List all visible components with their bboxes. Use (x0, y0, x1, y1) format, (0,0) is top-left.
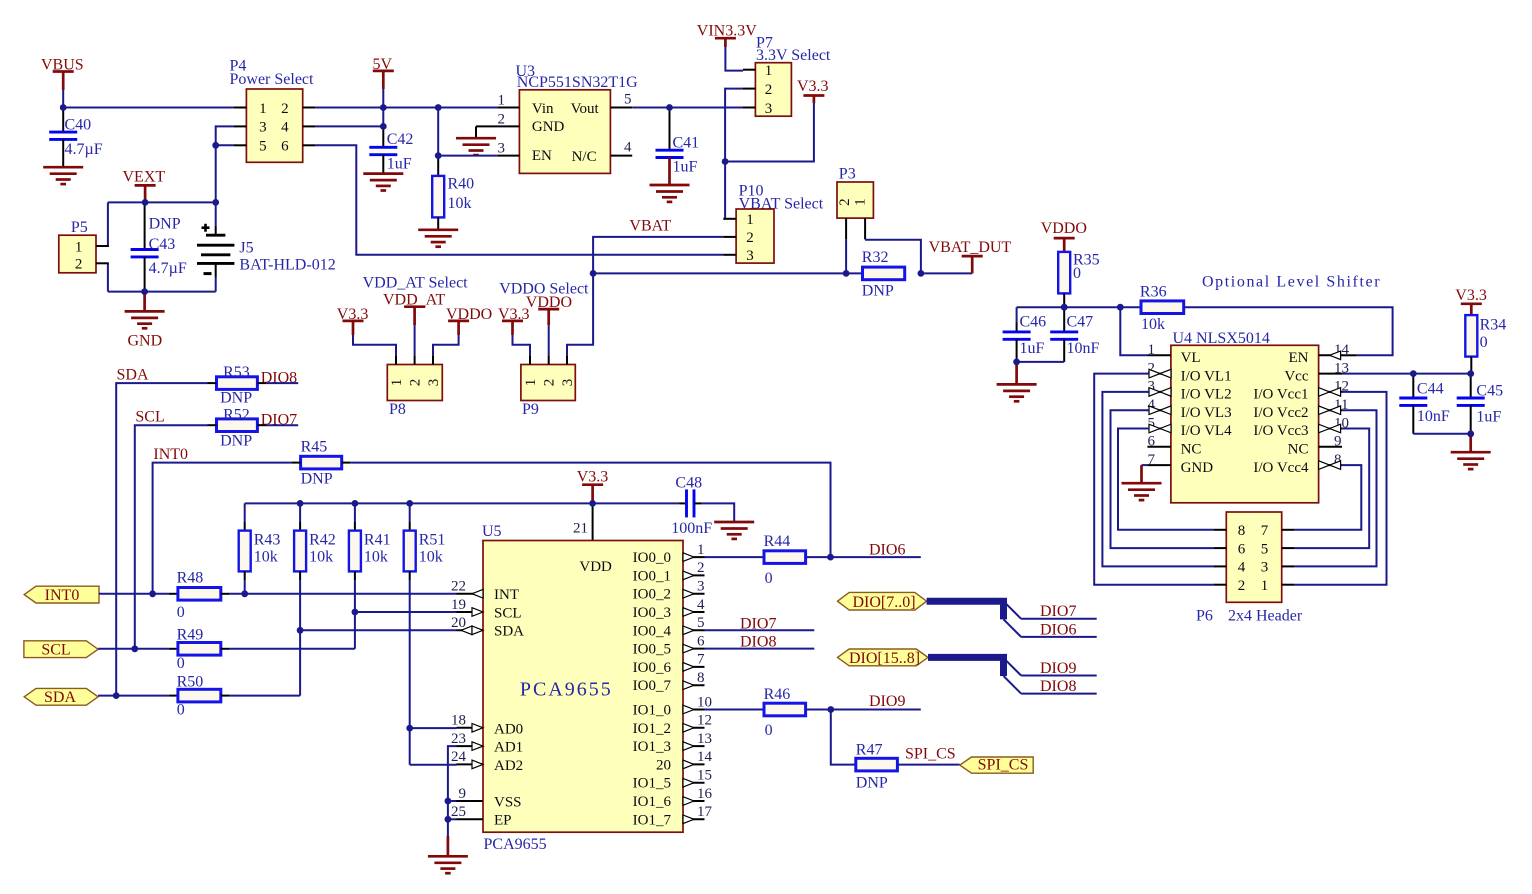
svg-text:R53: R53 (223, 364, 250, 381)
node C45 bottom junction (1467, 430, 1474, 437)
node rail R41 (352, 500, 359, 507)
bus entry DIO9 (1004, 658, 1022, 676)
svg-text:I/O Vcc1: I/O Vcc1 (1253, 387, 1308, 403)
svg-text:5: 5 (1261, 541, 1269, 557)
svg-text:SDA: SDA (494, 624, 524, 640)
svg-text:C46: C46 (1020, 314, 1047, 331)
node VSS junction (445, 798, 452, 805)
wire INT0 port to R48 (99, 593, 169, 595)
svg-text:10k: 10k (364, 548, 388, 565)
wire DIO8 stub (705, 648, 815, 650)
node R51 AD0 junction (406, 725, 413, 732)
svg-text:2: 2 (1238, 578, 1246, 594)
wire P10 pin2 VBAT (567, 237, 723, 355)
ground at U4 pin7 (1122, 465, 1162, 500)
resistor R42 (294, 503, 336, 580)
svg-text:3: 3 (765, 101, 773, 117)
svg-text:10: 10 (697, 694, 712, 710)
svg-text:IO0_4: IO0_4 (633, 623, 672, 639)
svg-text:1: 1 (1261, 578, 1269, 594)
resistor R41 (349, 503, 391, 580)
bus port DIO[7..0] (838, 592, 927, 610)
svg-text:4: 4 (1238, 560, 1246, 576)
svg-text:VBAT: VBAT (629, 218, 671, 235)
svg-text:IO0_1: IO0_1 (633, 568, 671, 584)
svg-text:24: 24 (451, 749, 467, 765)
svg-text:20: 20 (656, 757, 671, 773)
svg-text:DNP: DNP (149, 216, 181, 233)
svg-text:C45: C45 (1476, 383, 1503, 400)
wire R49 to SCL pin (230, 648, 355, 650)
svg-text:N/C: N/C (572, 149, 597, 165)
node C43 bottom junction (141, 288, 148, 295)
svg-text:0: 0 (177, 702, 185, 719)
svg-text:P6: P6 (1196, 607, 1213, 624)
wire R48 to INT pin (230, 593, 457, 595)
ground below C48 (714, 522, 754, 539)
svg-text:INT0: INT0 (45, 587, 80, 604)
svg-text:DIO6: DIO6 (1040, 621, 1076, 638)
svg-text:Vcc: Vcc (1284, 368, 1308, 384)
svg-text:10k: 10k (254, 548, 278, 565)
svg-text:Vin: Vin (532, 101, 554, 117)
svg-text:U5: U5 (482, 523, 502, 540)
wire INT0 row (153, 463, 292, 594)
IC U3 (519, 90, 610, 174)
wire Vcc out (1342, 373, 1471, 375)
capacitor C43 (131, 202, 187, 291)
wire C44 C45 bottoms (1413, 433, 1470, 435)
svg-text:8: 8 (697, 670, 705, 686)
svg-text:4: 4 (697, 597, 705, 613)
wire R53 out (266, 382, 298, 384)
svg-text:3: 3 (560, 379, 576, 387)
svg-text:PCA9655: PCA9655 (520, 678, 613, 700)
svg-text:EN: EN (532, 148, 552, 164)
wire VEXT rail (108, 201, 216, 203)
wire SDA row (116, 383, 207, 695)
svg-text:1uF: 1uF (673, 159, 698, 176)
bus DIO[15..8] (928, 657, 1004, 676)
svg-text:INT: INT (494, 587, 519, 603)
svg-text:R47: R47 (856, 741, 883, 758)
node C42 junction (380, 123, 387, 130)
svg-text:4: 4 (624, 140, 632, 156)
wire C46 C47 bottoms (1017, 361, 1065, 363)
power port V3.3 at U5 (577, 469, 609, 503)
power port VDDO at R35 (1041, 220, 1087, 252)
power port VBAT_DUT (929, 239, 1012, 273)
ground below C43 (125, 292, 165, 350)
svg-text:J5: J5 (239, 240, 253, 257)
connector P10 (723, 209, 774, 264)
node P7 net junction (722, 158, 729, 165)
wire V3.3 to P9 pin1 (513, 335, 531, 355)
svg-text:SPI_CS: SPI_CS (978, 757, 1029, 774)
resistor R40 (432, 156, 474, 230)
svg-text:AD0: AD0 (494, 721, 523, 737)
wire VBAT to R32 (593, 272, 862, 274)
svg-text:C41: C41 (673, 134, 700, 151)
svg-text:GND: GND (127, 333, 162, 350)
svg-text:6: 6 (1238, 541, 1246, 557)
svg-text:4.7µF: 4.7µF (149, 260, 187, 277)
svg-text:3: 3 (426, 379, 442, 387)
svg-text:C43: C43 (149, 236, 176, 253)
svg-text:1: 1 (75, 239, 83, 255)
svg-text:3: 3 (1261, 560, 1269, 576)
svg-text:I/O VL3: I/O VL3 (1181, 405, 1232, 421)
svg-text:8: 8 (1238, 523, 1246, 539)
capacitor C42 (369, 126, 413, 173)
capacitor C45 (1457, 374, 1503, 434)
svg-text:0: 0 (177, 604, 185, 621)
svg-text:DIO7: DIO7 (740, 616, 776, 633)
wire VDD_AT to P8 pin2 (414, 325, 416, 355)
svg-text:DNP: DNP (220, 432, 252, 449)
power port V3.3 at P9 (498, 306, 530, 335)
wire VBUS stub (62, 90, 64, 108)
svg-text:R34: R34 (1480, 317, 1507, 334)
wire P3 pin1 route (865, 240, 921, 274)
ground below C45 (1451, 434, 1491, 469)
resistor R53 (208, 364, 267, 407)
capacitor C41 (656, 108, 700, 185)
power port V3.3 at P8 (337, 306, 369, 335)
node INT0 junction (149, 590, 156, 597)
svg-text:C44: C44 (1417, 381, 1444, 398)
wire U4 pin10 to P6 pin5 (1294, 429, 1369, 549)
wire P4 pin2 to U3 (315, 107, 497, 109)
svg-text:10k: 10k (309, 548, 333, 565)
wire SDA branch (300, 629, 456, 631)
connector P8 (387, 355, 442, 400)
svg-text:2: 2 (498, 111, 506, 127)
svg-text:DIO7: DIO7 (1040, 603, 1076, 620)
wire P3 pin2 down (845, 239, 847, 273)
svg-text:1: 1 (697, 542, 705, 558)
svg-text:NCP551SN32T1G: NCP551SN32T1G (517, 74, 638, 91)
wire V3.3 to P8 pin1 (353, 335, 396, 355)
svg-text:P9: P9 (522, 401, 539, 418)
power port VDDO at P8 (446, 306, 492, 335)
capacitor C46 (1003, 307, 1047, 362)
svg-text:14: 14 (697, 749, 713, 765)
svg-text:R45: R45 (301, 438, 328, 455)
connector P6 label (1196, 607, 1303, 624)
svg-text:IO0_2: IO0_2 (633, 587, 671, 603)
wire VDDO to P8 pin3 (433, 335, 459, 355)
svg-text:SDA: SDA (117, 366, 149, 383)
svg-text:R50: R50 (177, 674, 204, 691)
node R34 junction (1467, 370, 1474, 377)
wire R52 out (266, 424, 298, 426)
wire SCL branch (355, 611, 457, 613)
resistor R35 (1058, 251, 1099, 307)
node rail R51 (406, 500, 413, 507)
svg-text:0: 0 (765, 570, 773, 587)
wire U3 pin5 out (632, 107, 743, 109)
svg-text:16: 16 (697, 786, 713, 802)
svg-text:10k: 10k (448, 195, 472, 212)
svg-text:P8: P8 (389, 401, 406, 418)
connector P9 (521, 355, 576, 400)
svg-text:R48: R48 (177, 570, 204, 587)
svg-text:1: 1 (523, 379, 539, 387)
svg-text:DIO[7..0]: DIO[7..0] (852, 594, 915, 611)
svg-text:1: 1 (746, 212, 754, 228)
node R32 left junction (843, 270, 850, 277)
svg-text:SDA: SDA (44, 689, 76, 706)
node P4 pin5 junction (212, 142, 219, 149)
node rail R42 (297, 500, 304, 507)
node R41 SCL junction (352, 609, 359, 616)
svg-text:Optional Level Shifter: Optional Level Shifter (1202, 274, 1381, 291)
svg-text:AD1: AD1 (494, 740, 523, 756)
svg-text:2: 2 (281, 101, 289, 117)
svg-text:22: 22 (451, 579, 466, 595)
svg-text:1: 1 (498, 92, 506, 108)
wire SCL row (135, 425, 208, 649)
P4 pin leads (234, 108, 316, 146)
ground below C46 (997, 362, 1037, 401)
wire U4 pin4 to P6 pin6 (1111, 410, 1214, 548)
wire R44 out (806, 556, 921, 558)
svg-text:IO0_5: IO0_5 (633, 642, 671, 658)
svg-text:2: 2 (746, 230, 754, 246)
ground below U5 (428, 836, 468, 873)
resistor R51 (404, 503, 446, 580)
svg-text:VSS: VSS (494, 794, 522, 810)
svg-text:DIO6: DIO6 (869, 541, 905, 558)
svg-text:GND: GND (532, 119, 565, 135)
node EN top junction (435, 104, 442, 111)
svg-text:P5: P5 (71, 219, 88, 236)
node R32 right junction (918, 270, 925, 277)
wire V3.3 pullup rail (245, 502, 680, 504)
power port VIN3.3V (697, 22, 757, 47)
svg-text:21: 21 (573, 520, 588, 536)
svg-text:IO0_3: IO0_3 (633, 605, 671, 621)
svg-text:DNP: DNP (301, 471, 333, 488)
wire U4 pin5 to P6 pin8 (1118, 429, 1214, 530)
bus port DIO[15..8] (838, 649, 929, 667)
wire P4 pin4 to C42 (315, 125, 383, 127)
wire VSS lead (448, 800, 457, 802)
svg-text:10nF: 10nF (1417, 408, 1450, 425)
svg-text:3: 3 (746, 248, 754, 264)
wire P5 pin2 drop (107, 263, 109, 291)
svg-text:EP: EP (494, 813, 512, 829)
svg-text:1uF: 1uF (1476, 408, 1501, 425)
resistor R34 (1465, 315, 1506, 374)
node R43 bottom junction (241, 590, 248, 597)
svg-text:18: 18 (451, 713, 466, 729)
svg-text:SCL: SCL (135, 408, 164, 425)
IC U5 (483, 541, 683, 833)
node C41 junction (666, 104, 673, 111)
svg-text:6: 6 (1148, 434, 1156, 450)
bus entry DIO8 (1004, 676, 1022, 694)
wire R41 bottom (354, 580, 356, 648)
U5 left pins (451, 579, 483, 821)
svg-text:10k: 10k (1141, 316, 1165, 333)
wire bottom rail (108, 291, 216, 293)
svg-text:0: 0 (1073, 265, 1081, 282)
wire DIO6 branch (1021, 636, 1097, 638)
capacitor C48 (671, 474, 712, 537)
svg-text:C48: C48 (675, 474, 702, 491)
resistor R46 (705, 686, 806, 739)
ground below R40 (418, 230, 458, 247)
wire R42 bottom (299, 580, 301, 695)
connector P7 labels (756, 34, 831, 64)
svg-text:12: 12 (697, 713, 712, 729)
svg-text:13: 13 (697, 731, 712, 747)
svg-text:SPI_CS: SPI_CS (905, 746, 956, 763)
svg-text:R51: R51 (419, 532, 446, 549)
wire VIN3.3V to P7 pin1 (725, 47, 743, 71)
svg-text:V3.3: V3.3 (1455, 287, 1487, 304)
wire R32 to VBAT_DUT (921, 272, 972, 274)
wire AD0 (410, 727, 457, 729)
svg-text:BAT-HLD-012: BAT-HLD-012 (239, 257, 335, 274)
wire EP lead (448, 818, 457, 820)
svg-text:NC: NC (1181, 442, 1202, 458)
svg-text:R44: R44 (764, 533, 791, 550)
svg-text:EN: EN (1289, 350, 1309, 366)
svg-text:6: 6 (281, 139, 289, 155)
U5 right pins (633, 542, 713, 828)
resistor R43 (239, 503, 281, 580)
svg-text:1uF: 1uF (1020, 340, 1045, 357)
connector P10 labels (739, 183, 824, 213)
svg-text:1: 1 (765, 63, 773, 79)
wire P7 pin2 route (725, 89, 743, 162)
node VBUS junction (60, 104, 67, 111)
svg-text:SCL: SCL (494, 605, 522, 621)
power port VBUS (41, 56, 84, 90)
ground below C41 (650, 185, 690, 202)
resistor R32 (862, 249, 905, 299)
wire VDDO to P9 pin2 (548, 325, 550, 355)
node VDD junction (589, 500, 596, 507)
wire EN to U3 pin3 (438, 155, 497, 157)
wire DIO7 branch (1021, 618, 1097, 620)
svg-text:9: 9 (459, 786, 467, 802)
svg-text:19: 19 (451, 597, 466, 613)
node EN junction (435, 152, 442, 159)
wire R45 to DIO6 node (351, 463, 831, 557)
svg-text:R46: R46 (764, 686, 791, 703)
resistor R50 (169, 674, 230, 719)
svg-text:IO1_5: IO1_5 (633, 776, 671, 792)
port SDA (24, 688, 98, 706)
svg-text:VDD_AT Select: VDD_AT Select (363, 275, 469, 292)
resistor R49 (169, 627, 230, 673)
U3 pin 5 lead (610, 91, 632, 107)
svg-text:DIO[15..8]: DIO[15..8] (849, 650, 920, 667)
svg-text:C42: C42 (387, 131, 414, 148)
svg-text:VDD: VDD (579, 559, 612, 575)
node C44 junction (1410, 370, 1417, 377)
svg-text:4.7µF: 4.7µF (65, 141, 103, 158)
svg-text:DNP: DNP (862, 282, 894, 299)
power port 5V (373, 56, 394, 89)
svg-text:R43: R43 (254, 532, 281, 549)
svg-text:INT0: INT0 (153, 446, 188, 463)
wire R51 bottom (409, 580, 411, 764)
svg-text:R42: R42 (309, 532, 336, 549)
wire U4 pin3 to P6 pin4 (1102, 392, 1213, 567)
svg-text:R36: R36 (1140, 284, 1167, 301)
U3 pin 1 lead (498, 92, 520, 108)
svg-text:3: 3 (259, 120, 267, 136)
power port VDDO at P9 (526, 294, 572, 325)
port INT0 (24, 586, 99, 604)
power port V3.3 at P7 (797, 78, 829, 103)
svg-text:2: 2 (697, 560, 705, 576)
svg-text:IO0_0: IO0_0 (633, 550, 671, 566)
connector P7 (743, 63, 791, 117)
svg-text:0: 0 (765, 722, 773, 739)
capacitor C44 (1399, 374, 1450, 434)
port SPI_CS (960, 757, 1033, 774)
resistor R44 (705, 533, 806, 587)
wire U4 pin8 to P6 pin7 (1294, 465, 1361, 530)
wire AD2 (410, 764, 457, 766)
wire V3.3 to junction (725, 103, 814, 162)
IC U5 pin21 lead (573, 503, 593, 540)
svg-text:DIO9: DIO9 (869, 693, 905, 710)
connector P4 (246, 89, 302, 162)
svg-text:IO1_7: IO1_7 (633, 812, 672, 828)
svg-text:15: 15 (697, 768, 712, 784)
wire DIO9 to R47 (831, 710, 856, 765)
connector P3 (837, 182, 874, 239)
connector P6 (1214, 512, 1295, 602)
svg-text:1: 1 (389, 379, 405, 387)
resistor R52 (208, 406, 267, 449)
resistor R36 (1140, 284, 1184, 333)
node rail right junction (212, 199, 219, 206)
bus DIO[7..0] (927, 601, 1004, 619)
svg-text:Power Select: Power Select (230, 71, 315, 88)
svg-text:25: 25 (451, 804, 466, 820)
svg-text:0: 0 (1480, 334, 1488, 351)
svg-text:2x4 Header: 2x4 Header (1228, 607, 1303, 624)
IC U4 (1147, 342, 1356, 503)
wire P5 pin1 riser (107, 202, 110, 246)
ground below C42 (363, 174, 403, 191)
node C46 bottom junction (1013, 359, 1020, 366)
svg-text:I/O Vcc4: I/O Vcc4 (1253, 460, 1309, 476)
wire SDA port to R50 (98, 695, 169, 697)
svg-text:R40: R40 (448, 175, 475, 192)
wire C48 to gnd (701, 503, 734, 521)
svg-text:1: 1 (259, 101, 267, 117)
svg-text:5: 5 (624, 91, 632, 107)
node SCL junction (131, 645, 138, 652)
U3 pin 2 lead (476, 111, 519, 127)
bus entry DIO7 (1004, 601, 1022, 619)
svg-text:I/O Vcc3: I/O Vcc3 (1253, 423, 1308, 439)
power port VDD_AT (383, 292, 445, 326)
wire U4 pin12 to P6 pin1 (1294, 392, 1386, 585)
svg-text:R52: R52 (223, 406, 250, 423)
svg-text:2: 2 (765, 82, 773, 98)
power port V3.3 at R34 (1455, 287, 1487, 315)
